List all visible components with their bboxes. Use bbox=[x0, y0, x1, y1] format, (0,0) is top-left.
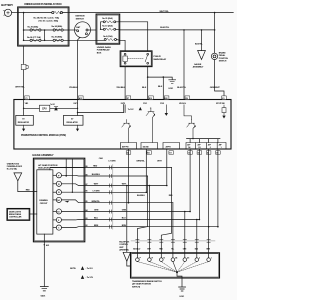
node BLU switch tap bbox=[196, 219, 198, 221]
node ATP PN join bbox=[128, 202, 130, 204]
wire brake switch feed bbox=[214, 13, 216, 54]
svg-text:: To IG1: : To IG1 bbox=[86, 268, 94, 270]
wire row3 bbox=[24, 39, 105, 41]
connector triangle multiplex bbox=[123, 252, 130, 261]
pin D3 cell label bbox=[206, 151, 211, 155]
svg-text:BLK/BLU: BLK/BLU bbox=[133, 248, 141, 250]
svg-text:B5: B5 bbox=[86, 201, 88, 203]
battery bbox=[3, 9, 11, 16]
ground G401 bbox=[40, 287, 48, 291]
note symbol 2 bbox=[81, 275, 84, 279]
wire PCM cpu link bbox=[24, 107, 78, 109]
pin cell ATP R bbox=[163, 143, 180, 150]
ground G101 top bbox=[169, 80, 176, 84]
svg-text:WHT/YEL: WHT/YEL bbox=[15, 87, 25, 89]
PGM-FI main relay label bbox=[154, 56, 167, 61]
svg-text:RED: RED bbox=[26, 190, 31, 192]
under-hood tap small label bbox=[7, 164, 23, 171]
wire BRN run bbox=[85, 226, 218, 228]
svg-text:2: 2 bbox=[199, 257, 200, 259]
wire lamp P out bbox=[62, 174, 85, 177]
svg-text:BRN: BRN bbox=[94, 225, 99, 227]
pin B10 bbox=[164, 96, 169, 100]
fuse No.35 rowA bbox=[103, 21, 115, 23]
D4 drive arrow bbox=[65, 201, 70, 203]
gauge assembly box bbox=[33, 158, 84, 242]
fuse No.39b row3 right bbox=[53, 39, 63, 41]
wire row1 feed bbox=[18, 12, 52, 14]
wire switch ground bbox=[177, 273, 182, 286]
svg-text:BRN/YEL: BRN/YEL bbox=[92, 201, 101, 203]
svg-text:YEL/BLK: YEL/BLK bbox=[116, 87, 125, 89]
CPU box bbox=[40, 105, 50, 111]
svg-text:D3: D3 bbox=[57, 211, 59, 213]
node row2 mid bbox=[44, 29, 46, 31]
wire relay out IGP2 bbox=[124, 67, 126, 100]
wire BRN/YEL run bbox=[85, 202, 173, 204]
node BLK/YEL end bbox=[214, 29, 216, 31]
svg-text:GAUGE: GAUGE bbox=[194, 63, 202, 66]
pin E7 bbox=[126, 96, 131, 100]
svg-text:POSITION: POSITION bbox=[219, 58, 229, 60]
connector triangle to gauge assembly bbox=[198, 51, 206, 60]
note symbol 1 bbox=[81, 266, 84, 270]
node BLK/YEL VB SOL tap bbox=[183, 29, 185, 31]
svg-text:A22: A22 bbox=[46, 244, 49, 247]
svg-text:GRN: GRN bbox=[122, 210, 127, 212]
cluster labels bbox=[187, 143, 222, 149]
svg-text:FUSE/RELAY: FUSE/RELAY bbox=[97, 49, 110, 52]
svg-text:D7: D7 bbox=[170, 153, 172, 155]
wire relay out PG1 bbox=[147, 67, 149, 100]
svg-text:MAIN RELAY: MAIN RELAY bbox=[154, 58, 167, 61]
svg-text:BLK: BLK bbox=[142, 87, 147, 89]
inline connector on WHT/YEL bbox=[21, 63, 28, 70]
node ATP 2 join bbox=[208, 226, 210, 228]
wire PG2 branch bbox=[148, 77, 173, 99]
under-dash fuse/relay box bbox=[96, 14, 120, 44]
wire lamp N out bbox=[62, 191, 85, 193]
wire BLU run bbox=[85, 219, 200, 221]
dimming circuit box bbox=[37, 170, 53, 234]
fuse No.38CT row3 left bbox=[30, 39, 41, 41]
wire ATP R down bbox=[166, 149, 168, 186]
svg-text:GRN/WHT: GRN/WHT bbox=[210, 87, 221, 89]
wire WHT run bbox=[85, 185, 167, 187]
svg-text:C424: C424 bbox=[99, 157, 103, 160]
svg-text:SWITCH): SWITCH) bbox=[132, 287, 140, 289]
wire GRN drop bbox=[184, 212, 186, 258]
fuse No.34 row2 right bbox=[53, 29, 63, 31]
wire red dimming bbox=[50, 168, 85, 170]
svg-text:BRN: BRN bbox=[122, 225, 127, 227]
svg-text:2: 2 bbox=[210, 147, 211, 149]
switch wiper arm bbox=[173, 262, 177, 273]
pin D5 cell label bbox=[197, 151, 202, 155]
wire ignition IG1 to PCM bbox=[78, 37, 81, 99]
node ATP D3 join bbox=[199, 219, 201, 221]
svg-text:E31: E31 bbox=[147, 153, 150, 155]
svg-text:ATP PN: ATP PN bbox=[122, 145, 129, 148]
svg-text:D4: D4 bbox=[175, 256, 177, 259]
wire controller to gauge bbox=[30, 213, 37, 215]
svg-text:No.35 (20A): No.35 (20A) bbox=[102, 17, 113, 20]
wire WHT drop bbox=[148, 186, 150, 258]
wire WHT/YEL to PCM bbox=[23, 46, 25, 63]
svg-text:BLU: BLU bbox=[122, 218, 127, 220]
switch wiper dashed positions bbox=[137, 262, 208, 273]
wire mid vertical bbox=[44, 30, 46, 40]
svg-text:1: 1 bbox=[211, 257, 212, 259]
transistor Q2 bbox=[146, 108, 155, 143]
wire row2 bbox=[24, 29, 69, 31]
dash lights brightness controller bbox=[7, 209, 30, 221]
svg-text:MULTIPLEX: MULTIPLEX bbox=[119, 241, 130, 243]
bulb 1 bbox=[53, 225, 62, 230]
WHT run labels bbox=[94, 184, 127, 186]
bulb N bbox=[53, 190, 62, 195]
multiplex control unit label bbox=[119, 241, 130, 251]
wire lamp R out bbox=[62, 184, 85, 186]
pin D7 cell label bbox=[169, 151, 174, 155]
wire ATP PN down bbox=[128, 149, 130, 203]
wire ATP 2 down to switch bbox=[208, 149, 210, 258]
wire Q3 output bus bbox=[187, 139, 221, 143]
svg-text:YEL: YEL bbox=[171, 248, 174, 250]
connector ticks switch drops bbox=[136, 240, 211, 243]
wire BLK/BLU run bbox=[85, 175, 148, 177]
svg-text:BLK/YEL: BLK/YEL bbox=[195, 44, 203, 46]
svg-text:SWITCH: SWITCH bbox=[219, 61, 227, 63]
ignition switch label bbox=[75, 16, 85, 21]
svg-text:CPU: CPU bbox=[42, 109, 47, 111]
svg-text:No.39 (50A): No.39 (50A) bbox=[28, 26, 39, 29]
svg-text:B9: B9 bbox=[86, 174, 88, 176]
svg-text:PGM-FI: PGM-FI bbox=[154, 56, 162, 58]
node gauge ground pin bbox=[44, 244, 45, 245]
diode D1 internal bbox=[54, 106, 58, 110]
under-dash box label bbox=[97, 46, 111, 55]
node bus1 bbox=[66, 175, 67, 176]
node row3 mid bbox=[44, 40, 46, 42]
wire gauge ground bbox=[43, 234, 45, 286]
wire red feed bbox=[18, 181, 37, 192]
svg-text:CONTROL: CONTROL bbox=[119, 244, 129, 246]
connector triangle from fuse bbox=[14, 173, 22, 181]
wire BLU drop bbox=[196, 220, 198, 258]
powertrain control module box bbox=[14, 100, 231, 150]
wire PCM IGP2 rail bbox=[78, 105, 124, 113]
wire WHT/YEL top run bbox=[63, 12, 234, 14]
svg-text:INDICATOR: INDICATOR bbox=[38, 167, 49, 170]
gauge assembly pointer label bbox=[193, 63, 204, 69]
pin E9 bbox=[185, 96, 190, 100]
svg-text:BLK/BLU: BLK/BLU bbox=[92, 174, 101, 176]
svg-text:B7: B7 bbox=[86, 184, 88, 186]
svg-text:NOTE:: NOTE: bbox=[70, 268, 76, 270]
gauge internal bus 2 bbox=[71, 159, 73, 192]
svg-text:B10: B10 bbox=[165, 98, 168, 100]
wire ATP D4 down bbox=[189, 149, 191, 212]
wire PCM VB1 internal bbox=[23, 100, 25, 116]
node igp2 rail bbox=[77, 112, 78, 113]
svg-text:CIRCUIT: CIRCUIT bbox=[40, 203, 48, 205]
wire BLK/YEL gauge branch bbox=[201, 30, 203, 51]
node ATP 1 join bbox=[217, 226, 219, 228]
svg-text:D3: D3 bbox=[187, 257, 189, 259]
node cpu link left bbox=[23, 108, 24, 109]
pin E10 bbox=[149, 96, 154, 100]
svg-text:IGNITION: IGNITION bbox=[75, 16, 85, 18]
svg-text:D4 IND: D4 IND bbox=[143, 145, 149, 148]
node row2 left bbox=[23, 29, 25, 31]
svg-text:WHT/YEL: WHT/YEL bbox=[160, 11, 170, 13]
wire BLK/YEL drop to VB SOL bbox=[183, 30, 185, 100]
wire rowB out BLK/YEL run bbox=[116, 28, 215, 31]
switch terminal 2 bbox=[195, 257, 200, 261]
svg-text:No.39 (80A): No.39 (80A) bbox=[52, 36, 63, 39]
svg-text:To IG1: To IG1 bbox=[50, 104, 55, 106]
pin E1 bbox=[222, 96, 227, 100]
relay coil bbox=[123, 53, 127, 64]
wire rowA out to relay bbox=[116, 22, 148, 51]
svg-text:UNDER-HOOD FUSE/RELAY BOX: UNDER-HOOD FUSE/RELAY BOX bbox=[24, 3, 62, 6]
svg-text:PEDAL: PEDAL bbox=[219, 54, 226, 57]
node gauge branch tap bbox=[201, 29, 203, 31]
wire GRN run bbox=[85, 211, 190, 213]
svg-text:BLK/YEL: BLK/YEL bbox=[177, 87, 187, 89]
svg-text:CONTROLLER: CONTROLLER bbox=[9, 216, 22, 218]
fuse No.38 value label bbox=[34, 16, 60, 22]
svg-text:DIMMING: DIMMING bbox=[39, 200, 48, 202]
node WHT multiplex tap bbox=[126, 185, 128, 187]
node PG1 branch bbox=[147, 76, 149, 78]
wire RED run bbox=[50, 167, 172, 169]
svg-text:E9: E9 bbox=[186, 98, 188, 100]
wire Q1 feed bbox=[124, 105, 126, 113]
wire BLK/BLU drop bbox=[137, 176, 147, 258]
controller label bbox=[9, 210, 22, 218]
node ATP D4 join bbox=[189, 211, 191, 213]
svg-text:BLK/YEL: BLK/YEL bbox=[160, 27, 170, 29]
svg-text:RED: RED bbox=[93, 166, 98, 168]
node bus2 bbox=[72, 192, 73, 193]
node PG2 branch bbox=[163, 76, 165, 78]
transistor Q1 bbox=[122, 120, 131, 143]
wire RED drop to switch bbox=[161, 168, 171, 258]
svg-text:1: 1 bbox=[221, 147, 222, 149]
svg-text:SWITCH: SWITCH bbox=[76, 18, 85, 20]
PG2 internal arrow bbox=[165, 105, 168, 116]
wire bus vertical left bbox=[23, 13, 25, 41]
svg-text:REGULATOR: REGULATOR bbox=[67, 121, 79, 124]
wire lamp 1 out bbox=[62, 226, 85, 229]
note text bbox=[70, 268, 94, 279]
svg-text:No.9 (20A): No.9 (20A) bbox=[103, 35, 113, 38]
svg-text:POWERTRAIN CONTROL MODULE (PCM: POWERTRAIN CONTROL MODULE (PCM) bbox=[21, 134, 66, 137]
wire multiplex stem bbox=[127, 261, 131, 266]
5V regulator left bbox=[16, 115, 34, 131]
svg-text:A/T GEAR POSITION: A/T GEAR POSITION bbox=[38, 164, 58, 167]
svg-text:YEL/BLK: YEL/BLK bbox=[69, 87, 78, 89]
node GRN switch tap bbox=[184, 211, 186, 213]
svg-text:B8: B8 bbox=[86, 166, 88, 168]
connector ticks gauge bbox=[109, 166, 111, 229]
node under-dash bus bbox=[100, 29, 101, 30]
node cpu link right bbox=[77, 108, 78, 109]
bulb D4 bbox=[53, 197, 62, 202]
svg-text:LT GRN: LT GRN bbox=[93, 190, 100, 192]
switch terminal D4 bbox=[171, 256, 177, 261]
svg-text:LT GRN: LT GRN bbox=[109, 160, 116, 162]
pin cell ATP PN bbox=[121, 143, 137, 150]
svg-text:B2: B2 bbox=[86, 225, 88, 227]
svg-text:(A/T GEAR POSITION: (A/T GEAR POSITION bbox=[132, 283, 152, 286]
svg-text:BRAKE: BRAKE bbox=[219, 51, 226, 54]
svg-text:REGULATOR: REGULATOR bbox=[18, 121, 30, 124]
under-hood fuse/relay box bbox=[18, 7, 69, 46]
wire ignition out bbox=[88, 29, 96, 31]
pin A13 bbox=[79, 96, 84, 100]
stop sw internal element bbox=[222, 105, 226, 119]
pin cell cluster ATP D4 D3 2 1 bbox=[186, 143, 226, 150]
gauge internal bus 1 bbox=[65, 159, 67, 176]
svg-text:(DRIVER'S): (DRIVER'S) bbox=[119, 250, 129, 252]
wire ATP 1 down bbox=[217, 149, 219, 227]
BRN run labels bbox=[94, 225, 127, 227]
gauge edge pin labels bbox=[86, 166, 88, 227]
svg-text:TRANSMISSION RANGE SWITCH: TRANSMISSION RANGE SWITCH bbox=[132, 280, 162, 283]
5V regulator right bbox=[64, 115, 84, 131]
svg-text:E1: E1 bbox=[222, 98, 224, 100]
svg-text:BLK: BLK bbox=[158, 86, 163, 88]
ground G101 bottom bbox=[179, 287, 186, 291]
node D4 IND join bbox=[146, 192, 148, 194]
transistor Q3 bbox=[184, 105, 196, 139]
svg-text:No.38 ('96-'99 models: 70A): No.38 ('96-'99 models: 70A) bbox=[34, 16, 60, 19]
transmission range switch box bbox=[131, 253, 220, 278]
svg-text:('00-'01 models: 80A): ('00-'01 models: 80A) bbox=[39, 19, 59, 22]
wire lamp 2 out bbox=[62, 219, 85, 221]
svg-text:BOX: BOX bbox=[97, 52, 102, 54]
a/t gear position indicator label bbox=[38, 164, 58, 170]
svg-text:ASSEMBLY: ASSEMBLY bbox=[193, 66, 204, 69]
wire YEL drop bbox=[172, 203, 174, 258]
svg-text:E7: E7 bbox=[127, 98, 129, 100]
switch terminal R bbox=[148, 257, 154, 261]
svg-text:A13: A13 bbox=[79, 97, 82, 100]
wire LT GRN run bbox=[85, 191, 147, 193]
node row1 junction bbox=[23, 12, 25, 14]
switch terminal 1 bbox=[207, 257, 212, 261]
pin cell D4 IND bbox=[141, 143, 158, 150]
switch label bbox=[132, 280, 162, 289]
node WHT switch tap bbox=[149, 185, 151, 187]
svg-text:No.34 (80A): No.34 (80A) bbox=[52, 25, 63, 28]
brake pedal position switch bbox=[211, 53, 217, 59]
svg-text:To 12V: To 12V bbox=[128, 109, 134, 111]
fuse No.9 rowC bbox=[104, 38, 116, 40]
wire ignition feed bbox=[69, 29, 77, 31]
brake switch label bbox=[219, 51, 229, 62]
switch terminal P bbox=[136, 257, 142, 261]
pin D4 cell label bbox=[126, 151, 131, 155]
switch terminal D3 bbox=[183, 257, 189, 261]
wire brake switch to STOP SW bbox=[215, 60, 224, 100]
wire under-dash bus bbox=[101, 22, 104, 30]
switch wiper pivot bbox=[176, 271, 178, 273]
node Q3 bus bbox=[192, 138, 193, 139]
svg-text:GRN: GRN bbox=[94, 210, 99, 212]
wire PCM IGP1 internal bbox=[77, 100, 79, 116]
relay contact bbox=[145, 53, 148, 64]
svg-text:B3: B3 bbox=[86, 218, 88, 220]
svg-text:UNDER-DASH: UNDER-DASH bbox=[97, 46, 111, 49]
wire WHT/YEL lower bbox=[23, 71, 25, 100]
wire lamp D3 out bbox=[62, 210, 85, 212]
svg-text:STOP SW: STOP SW bbox=[216, 103, 225, 105]
svg-text:GRN/YEL: GRN/YEL bbox=[136, 160, 145, 162]
ignition switch bbox=[75, 22, 91, 38]
svg-text:: To 12V: : To 12V bbox=[86, 277, 94, 279]
svg-text:C1: C1 bbox=[25, 98, 27, 100]
wire ATP D3 down bbox=[198, 149, 200, 220]
pin D6 cell label bbox=[188, 151, 193, 155]
bulb P bbox=[53, 173, 62, 178]
svg-text:BLK/BLU: BLK/BLU bbox=[137, 195, 145, 197]
svg-text:ATP R: ATP R bbox=[166, 145, 172, 148]
pin D9 cell label bbox=[216, 151, 221, 155]
pin C1 bbox=[25, 96, 30, 100]
svg-text:BLU: BLU bbox=[94, 218, 99, 220]
wire rowC out to relay bbox=[117, 40, 126, 51]
svg-text:VB SOL: VB SOL bbox=[179, 103, 187, 105]
svg-text:E10: E10 bbox=[149, 98, 152, 100]
svg-text:No.10 (20A): No.10 (20A) bbox=[102, 25, 113, 28]
BLU run labels bbox=[94, 218, 126, 220]
switch terminal N bbox=[160, 257, 166, 261]
svg-text:GAUGE ASSEMBLY: GAUGE ASSEMBLY bbox=[32, 154, 54, 157]
PGM-FI main relay box bbox=[120, 51, 152, 67]
bulb R bbox=[53, 181, 62, 186]
connector line C switch bbox=[131, 240, 215, 242]
wire D4 IND down bbox=[145, 149, 147, 192]
fuse No.38 row1 bbox=[52, 11, 63, 13]
switch wire labels bbox=[133, 248, 210, 250]
node row3 left bbox=[23, 40, 25, 42]
svg-text:No.23 (7.5A): No.23 (7.5A) bbox=[7, 168, 17, 171]
svg-text:No.38 (CT 70A): No.38 (CT 70A) bbox=[27, 36, 41, 39]
bulb D3 bbox=[53, 209, 62, 214]
svg-text:B6: B6 bbox=[86, 191, 88, 193]
wire lamp D4 out bbox=[62, 200, 85, 203]
To 12V note symbol bbox=[128, 107, 142, 113]
node WHT/YEL brake tap bbox=[214, 12, 216, 14]
svg-text:BATTERY: BATTERY bbox=[1, 3, 13, 7]
relay dashed link bbox=[128, 58, 144, 60]
bulb 2 bbox=[53, 217, 62, 222]
connector line C gauge bbox=[112, 165, 114, 230]
wire multiplex drop bbox=[126, 186, 128, 252]
fuse No.39 row2 left bbox=[30, 29, 41, 31]
node ATP R join bbox=[166, 185, 168, 187]
fuse No.10 rowB bbox=[103, 28, 115, 30]
GRN run labels bbox=[94, 210, 127, 212]
wire battery to fuse box bbox=[12, 12, 18, 14]
node bus1 red bbox=[66, 167, 67, 168]
pin E31 cell label bbox=[147, 151, 152, 155]
